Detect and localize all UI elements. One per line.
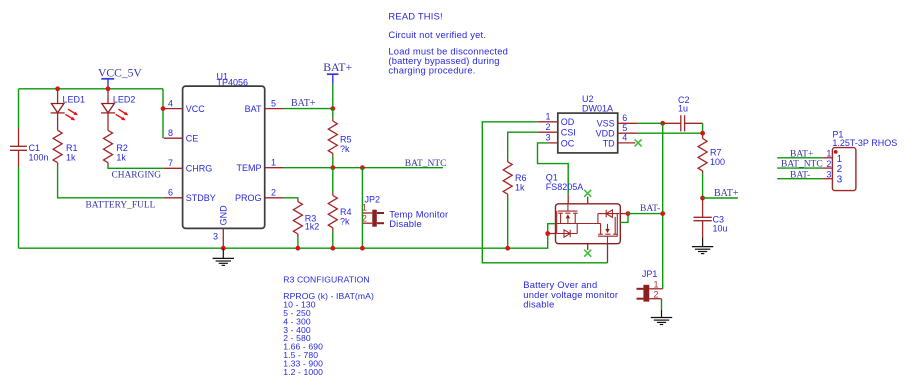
ground symbol under U1	[213, 248, 234, 265]
U2 pin 6 VSS	[597, 113, 638, 129]
svg-text:Disable: Disable	[389, 218, 422, 229]
svg-text:BAT+: BAT+	[323, 60, 352, 74]
capacitor C1	[10, 128, 49, 167]
op-amp U1 TP4056 body	[183, 86, 265, 228]
node junction Q1 left / bottom rail	[545, 231, 550, 236]
svg-text:4: 4	[622, 133, 627, 143]
node junction VSS / C2 / BAT- vertical	[660, 121, 665, 126]
wire U2.OC to Q1 gate1	[538, 143, 569, 194]
svg-text:1k2: 1k2	[305, 222, 320, 232]
wire R6 to bottom rail	[507, 197, 509, 248]
wire U2.OD to Q1 gate2 path	[482, 122, 607, 263]
U2 pin 5 VDD	[596, 123, 637, 139]
svg-text:R6: R6	[515, 173, 527, 183]
svg-text:charging procedure.: charging procedure.	[388, 65, 475, 76]
svg-text:R7: R7	[710, 148, 722, 158]
node junction R4 / bottom rail	[330, 246, 335, 251]
svg-text:VSS: VSS	[597, 119, 615, 129]
note READ THIS	[388, 11, 508, 76]
svg-text:?k: ?k	[340, 217, 350, 227]
IC U2 DW01A body	[558, 113, 618, 153]
svg-text:BAT: BAT	[245, 104, 262, 114]
svg-text:BAT+: BAT+	[790, 149, 813, 159]
svg-text:TD: TD	[603, 138, 615, 148]
svg-text:?k: ?k	[340, 144, 350, 154]
Q1 mid source bus	[556, 223, 601, 225]
Q1 pin bottom nc	[584, 244, 591, 257]
wire net BAT_NTC from U1.TEMP	[284, 167, 443, 169]
wire PROG to R3	[284, 197, 298, 200]
wire Q1 left hook	[548, 224, 556, 234]
connector P1 body	[832, 129, 897, 190]
node junction GND / bottom rail	[221, 246, 226, 251]
U1 pin 7 CHRG	[164, 158, 213, 174]
svg-text:DW01A: DW01A	[582, 104, 613, 114]
svg-text:BAT-: BAT-	[640, 204, 660, 214]
svg-text:BAT+: BAT+	[291, 98, 316, 109]
svg-text:CHARGING: CHARGING	[112, 170, 162, 180]
svg-text:1.2 - 1000: 1.2 - 1000	[283, 367, 323, 377]
svg-text:100n: 100n	[29, 153, 49, 163]
svg-text:5: 5	[622, 123, 627, 133]
wire bottom rail	[19, 234, 548, 249]
svg-text:R5: R5	[340, 135, 352, 145]
svg-text:1: 1	[362, 203, 367, 213]
svg-text:READ THIS!: READ THIS!	[388, 11, 442, 22]
resistor R4	[328, 192, 351, 231]
wire net BAT+ to P1.1	[777, 157, 822, 159]
wire R5 to BAT_NTC node	[332, 156, 334, 167]
svg-text:CE: CE	[186, 134, 199, 144]
svg-text:C1: C1	[29, 143, 41, 153]
U1 pin 5 BAT	[245, 98, 284, 114]
wire R3 to bottom rail	[297, 237, 299, 249]
svg-text:1: 1	[826, 149, 831, 159]
Q1 diode D2 internals	[598, 210, 620, 224]
Q1 pin top nc	[584, 190, 591, 204]
Q1 MOSFET 1 internals	[557, 204, 578, 234]
svg-text:3: 3	[213, 232, 218, 242]
node junction BAT- bus	[660, 211, 665, 216]
svg-text:GND: GND	[219, 205, 229, 226]
svg-text:2: 2	[271, 188, 276, 198]
node junction BAT_NTC / JP2	[360, 165, 365, 170]
ground symbol under JP1	[651, 310, 672, 325]
resistor R3	[293, 198, 319, 236]
wire top VCC rail	[19, 88, 164, 90]
svg-text:FS8205A: FS8205A	[546, 182, 584, 192]
resistor R2	[104, 113, 128, 166]
ground symbol under C3	[692, 237, 713, 253]
svg-text:1k: 1k	[66, 153, 76, 163]
Q1 MOSFET 2 internals	[598, 214, 618, 244]
U1 pin 3 GND	[213, 205, 229, 248]
svg-text:R4: R4	[340, 207, 352, 217]
svg-text:1k: 1k	[515, 183, 525, 193]
svg-text:1: 1	[271, 157, 276, 167]
LED LED1	[51, 89, 85, 121]
jumper JP2	[362, 194, 384, 226]
power flag VCC_5V	[98, 67, 142, 88]
wire C2 to VDD node	[702, 123, 704, 133]
svg-text:6: 6	[622, 113, 627, 123]
wire JP2 branch vertical	[361, 168, 363, 249]
wire net BAT- to P1.3	[777, 178, 822, 180]
svg-text:BAT-: BAT-	[790, 170, 810, 180]
node junction VDD / C2 / R7	[700, 131, 705, 136]
svg-text:2: 2	[545, 122, 550, 132]
node junction R3 / bottom rail	[296, 246, 301, 251]
U2 pin 1 OD	[538, 112, 575, 128]
svg-text:CSI: CSI	[561, 128, 576, 138]
wire net BAT_NTC to P1.2	[777, 167, 822, 169]
Q1 pin right source1	[620, 213, 628, 215]
svg-text:VCC_5V: VCC_5V	[98, 67, 142, 80]
wire left rail lower	[18, 167, 20, 248]
power flag BAT+	[323, 60, 352, 84]
svg-text:Circuit not verified yet.: Circuit not verified yet.	[388, 29, 486, 40]
wire Q1 right hook	[620, 214, 628, 223]
resistor R7	[698, 133, 725, 173]
note Battery Over voltage	[523, 279, 618, 309]
svg-text:1: 1	[545, 112, 550, 122]
resistor R5	[328, 118, 351, 156]
node junction VCC rail / LED1	[55, 86, 60, 91]
svg-text:OD: OD	[561, 117, 575, 127]
node junction VCC pin4 tap	[161, 106, 166, 111]
capacitor C2	[663, 95, 703, 131]
node junction BAT+	[330, 106, 335, 111]
node junction BAT_NTC / R5 / R4	[330, 165, 335, 170]
svg-text:100: 100	[710, 157, 725, 167]
resistor R1	[53, 113, 77, 166]
node junction VCC rail / LED2	[106, 86, 111, 91]
svg-text:OC: OC	[561, 138, 575, 148]
svg-text:1k: 1k	[116, 153, 126, 163]
svg-text:LED1: LED1	[63, 95, 86, 105]
Q1 diode D1 internals	[556, 224, 578, 238]
U1 pin 1 TEMP	[236, 157, 283, 173]
node junction R6 / bottom rail	[505, 246, 510, 251]
Q1 pin bottom gate2	[607, 244, 609, 263]
svg-text:PROG: PROG	[235, 193, 262, 203]
wire net BAT-	[628, 213, 663, 215]
svg-text:1: 1	[653, 280, 658, 290]
node junction BAT- at Q1	[626, 211, 631, 216]
svg-text:Q1: Q1	[546, 172, 558, 182]
svg-text:1u: 1u	[678, 104, 688, 114]
svg-text:8: 8	[168, 128, 173, 138]
svg-text:2: 2	[826, 159, 831, 169]
node junction BAT+ / C3	[700, 196, 705, 201]
svg-text:TP4056: TP4056	[217, 77, 249, 87]
svg-text:1.25T-3P RHOS: 1.25T-3P RHOS	[832, 138, 897, 148]
U2 pin 3 OC	[545, 133, 574, 149]
svg-text:7: 7	[168, 158, 173, 168]
svg-text:U2: U2	[582, 94, 594, 104]
wire R7 to BAT+ node	[702, 174, 704, 199]
U1 pin 6 STDBY	[164, 188, 216, 204]
svg-text:TEMP: TEMP	[236, 163, 261, 173]
svg-text:3: 3	[837, 175, 843, 186]
wire R4 to bottom rail	[332, 231, 334, 248]
svg-text:3: 3	[826, 170, 831, 180]
wire VCC branch vertical	[162, 89, 164, 138]
wire net BAT+ stub	[703, 197, 738, 199]
wire U2.CSI to R6	[508, 132, 538, 158]
P1 pin 1	[822, 149, 832, 159]
svg-text:LED2: LED2	[113, 95, 136, 105]
svg-text:JP1: JP1	[642, 269, 658, 279]
node junction JP2 / bottom rail	[360, 246, 365, 251]
Q1 pin left source2	[548, 233, 556, 235]
wire BAT_NTC node down to R4	[332, 168, 334, 193]
U1 pin 8 CE	[164, 128, 199, 144]
U1 pin 2 PROG	[235, 188, 284, 204]
svg-text:BAT+: BAT+	[714, 188, 739, 199]
wire BAT+ flag to node	[332, 84, 334, 109]
svg-text:disable: disable	[523, 298, 554, 309]
wire JP1 pin2 to ground	[661, 299, 663, 310]
Q1 pin top gate1	[567, 194, 569, 204]
svg-text:R3 CONFIGURATION: R3 CONFIGURATION	[283, 274, 369, 284]
svg-text:5: 5	[271, 98, 276, 108]
svg-text:4: 4	[168, 98, 173, 108]
svg-text:BATTERY_FULL: BATTERY_FULL	[86, 200, 156, 210]
svg-text:2: 2	[362, 214, 367, 224]
U1 pin 4 VCC	[164, 98, 206, 114]
svg-text:3: 3	[545, 133, 550, 143]
P1 pin 3	[822, 170, 832, 180]
transistor Q1 FS8205A body	[546, 172, 621, 243]
wire VDD to R7 node	[637, 132, 703, 134]
svg-text:BAT_NTC: BAT_NTC	[405, 159, 447, 169]
capacitor C3	[694, 198, 728, 237]
wire left rail upper	[18, 89, 20, 128]
P1 pin 2	[822, 159, 832, 169]
note R3 CONFIGURATION table	[283, 274, 374, 376]
svg-text:BAT_NTC: BAT_NTC	[781, 160, 823, 170]
svg-text:2: 2	[653, 290, 658, 300]
LED LED2	[101, 89, 135, 121]
wire net BATTERY_FULL from R1 to U1.STDBY	[58, 166, 164, 198]
U2 pin 2 CSI	[538, 122, 576, 138]
U2 pin 4 TD no-connect	[603, 133, 642, 149]
svg-text:VDD: VDD	[596, 129, 616, 139]
wire BAT+ node into R5	[332, 109, 334, 119]
svg-text:VCC: VCC	[186, 104, 206, 114]
resistor R6	[503, 159, 526, 198]
wire net CHARGING from R2 to U1.CHRG	[108, 166, 164, 169]
svg-text:6: 6	[168, 188, 173, 198]
svg-text:STDBY: STDBY	[186, 193, 216, 203]
wire BAT- vertical bus	[662, 123, 664, 288]
svg-text:10u: 10u	[713, 224, 728, 234]
wire U1.BAT to BAT+ node	[284, 108, 333, 110]
wire VSS to C2 node	[637, 122, 662, 124]
svg-text:CHRG: CHRG	[186, 164, 213, 174]
jumper JP1	[637, 269, 663, 301]
